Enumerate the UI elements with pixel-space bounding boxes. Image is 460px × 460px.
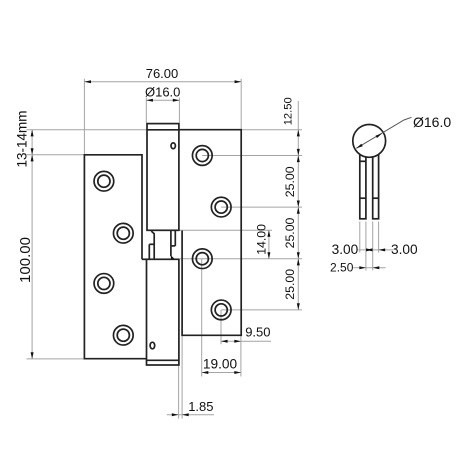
- arrow 19.00 left: [202, 371, 209, 374]
- svg-text:9.50: 9.50: [245, 325, 270, 340]
- arrow 100 top: [31, 155, 34, 162]
- svg-text:12.50: 12.50: [282, 97, 294, 125]
- arrow chain 155.5 down: [297, 149, 300, 156]
- arrow 9.50 right: [234, 340, 241, 343]
- arrow 1.85 right: [182, 413, 189, 416]
- arrow chain 207.1 up: [297, 207, 300, 214]
- arrow dia16 left: [146, 99, 153, 102]
- svg-text:25.00: 25.00: [283, 166, 297, 197]
- arrow 19.00 right: [234, 371, 241, 374]
- arrow 3.00 R1: [366, 248, 373, 251]
- arrow dia16 right: [173, 99, 180, 102]
- joint step left horizontal: [149, 243, 154, 245]
- lower knuckle pin hole o: [150, 342, 155, 349]
- left leaf hole 2 outer: [113, 223, 133, 243]
- upper knuckle pin hole o: [171, 143, 175, 149]
- extension line dia16 right: [178, 98, 180, 123]
- extension line leaf right edge down: [240, 335, 242, 377]
- extension line joint bottom / hole3: [180, 258, 302, 260]
- arrow chain 258.8 down: [297, 252, 300, 259]
- svg-text:1.85: 1.85: [188, 399, 213, 414]
- joint bottom wedge: [171, 255, 175, 259]
- right leaf hole 2 outer: [211, 197, 231, 217]
- joint slot left wall: [170, 230, 172, 256]
- dim line 1.85: [167, 414, 214, 416]
- extension line dia16 left: [145, 98, 147, 123]
- joint slot right wall: [174, 230, 176, 246]
- upper knuckle outline: [147, 124, 179, 231]
- upper knuckle cap line: [146, 129, 179, 131]
- arrow 13-14 top: [31, 130, 34, 137]
- left leaf hole 3 inner: [98, 277, 110, 289]
- right leaf hole 3 inner: [196, 253, 208, 265]
- extension line joint top: [180, 229, 272, 231]
- extension line top 13-14mm upper reference: [27, 129, 147, 131]
- dim line 9.50: [221, 340, 271, 342]
- dia leader arrow lower: [356, 144, 362, 149]
- extension line left leaf bottom: [27, 358, 85, 360]
- arrow chain 155.5 up: [297, 156, 300, 163]
- svg-text:14.00: 14.00: [254, 224, 268, 255]
- extension line 9.50 left: [220, 310, 222, 344]
- extension line 1.85 right: [181, 335, 183, 419]
- extension line 76.00 left: [83, 79, 85, 154]
- svg-text:100.00: 100.00: [17, 237, 34, 283]
- arrow chain 258.8 up: [297, 259, 300, 266]
- lower knuckle outline: [147, 259, 179, 365]
- leg ext line outer right: [378, 222, 380, 253]
- svg-text:Ø16.0: Ø16.0: [413, 114, 451, 130]
- leg1 tick mid: [360, 197, 366, 199]
- joint step left vertical: [148, 244, 150, 259]
- arrow 3.00 R2: [379, 248, 386, 251]
- lower knuckle cap line: [147, 359, 179, 361]
- leg2 tick mid: [373, 197, 379, 199]
- detail pin head circle: [353, 124, 386, 157]
- joint tongue left chamfer: [151, 231, 154, 259]
- left leaf outline: [84, 155, 146, 359]
- dim line 3.00 pair: [358, 249, 393, 251]
- leg ext line inner left: [365, 222, 367, 271]
- extension line 12.50 right of leaf: [241, 129, 302, 131]
- dim line right chain: [297, 101, 299, 310]
- right leaf hole 1 inner: [196, 149, 208, 161]
- svg-text:25.00: 25.00: [283, 217, 297, 248]
- arrow 1.85 left: [172, 413, 179, 416]
- svg-text:19.00: 19.00: [203, 356, 238, 371]
- dim line 14.00: [268, 230, 270, 259]
- right leaf hole 4 inner: [215, 304, 227, 316]
- svg-text:3.00: 3.00: [332, 242, 359, 257]
- left leaf hole 4 inner: [117, 329, 129, 341]
- right leaf hole 1 outer: [192, 146, 212, 166]
- extension line 76.00 right: [240, 79, 242, 129]
- svg-text:76.00: 76.00: [146, 66, 179, 81]
- right leaf hole 4 outer: [211, 300, 231, 320]
- extension line 19.00 left: [201, 259, 203, 377]
- lower knuckle top edge left extension: [142, 258, 147, 260]
- arrow 76.00 right: [235, 80, 242, 83]
- svg-text:13-14mm: 13-14mm: [14, 110, 29, 167]
- arrow chain 309.9 down: [297, 303, 300, 310]
- arrow 14.00 top: [267, 230, 270, 237]
- left leaf hole 1 inner: [98, 175, 110, 187]
- extension line hole4 right: [221, 309, 302, 311]
- arrow 13-14 bottom: [31, 148, 34, 155]
- arrow 9.50 left: [221, 340, 228, 343]
- detail pin leg 2: [373, 151, 379, 219]
- arrow chain 207.1 down: [297, 201, 300, 208]
- left leaf hole 4 outer: [113, 325, 133, 345]
- left leaf hole 1 outer: [94, 171, 114, 191]
- arrow 76.00 left: [84, 80, 91, 83]
- left leaf hole 2 inner: [117, 227, 129, 239]
- dia leader line diagonal: [356, 117, 411, 148]
- svg-text:25.00: 25.00: [283, 269, 297, 300]
- leg ext line outer left: [359, 222, 361, 253]
- arrow 2.50 left: [359, 266, 366, 269]
- detail pin leg 1: [360, 151, 366, 219]
- right leaf outline: [179, 130, 241, 336]
- dia leader arrow upper: [376, 134, 382, 139]
- right leaf hole 3 outer: [192, 249, 212, 269]
- dim line 19.00: [202, 372, 241, 374]
- svg-text:3.00: 3.00: [391, 242, 418, 257]
- right leaf hole 2 inner: [215, 201, 227, 213]
- arrow 3.00 L2: [366, 248, 373, 251]
- dim line 2.50: [353, 267, 385, 269]
- dim line left chain 13-14 and 100: [31, 130, 33, 359]
- left leaf hole 3 outer: [94, 274, 114, 294]
- extension line hole1 right: [202, 155, 302, 157]
- leg1 tick top: [360, 160, 366, 162]
- leg ext line inner right: [372, 222, 374, 271]
- joint slot bottom: [171, 245, 175, 247]
- extension line hole2 right: [221, 206, 302, 208]
- arrow 100 bottom: [31, 352, 34, 359]
- dim line 76.00: [84, 81, 241, 83]
- arrow 14.00 bottom: [267, 252, 270, 259]
- svg-text:2.50: 2.50: [330, 261, 354, 275]
- svg-text:Ø16.0: Ø16.0: [145, 85, 180, 100]
- extension line 1.85 left: [178, 365, 180, 418]
- extension line left leaf top: [27, 154, 85, 156]
- arrow 2.50 right: [373, 266, 380, 269]
- arrow chain 129.8 up: [297, 130, 300, 137]
- dim line dia16 top: [146, 99, 179, 101]
